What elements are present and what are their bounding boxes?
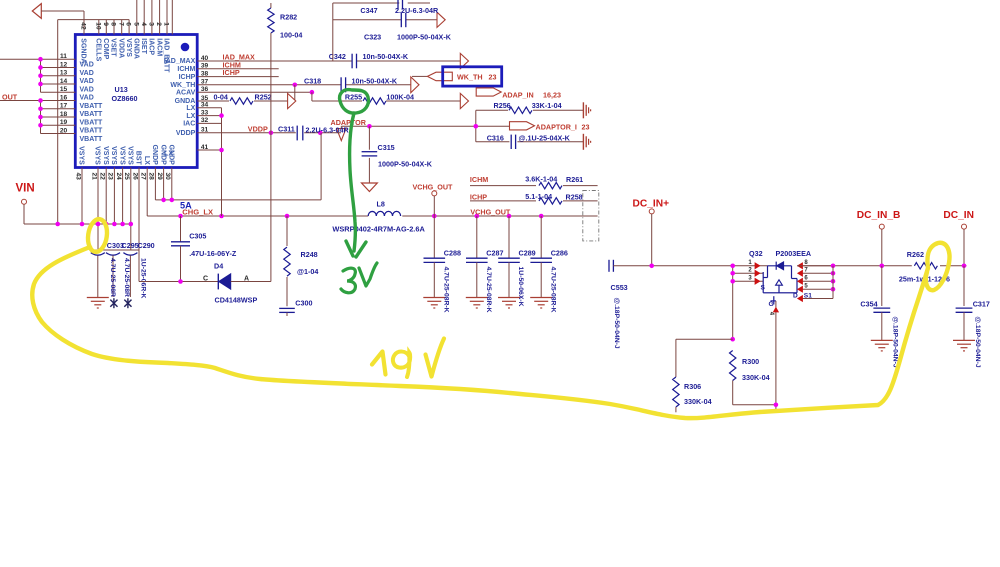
svg-text:WK_TH: WK_TH [457, 72, 483, 81]
svg-text:ISET: ISET [140, 38, 147, 54]
svg-text:VSYS: VSYS [94, 146, 101, 165]
svg-text:@.18P-50-04N-J: @.18P-50-04N-J [974, 316, 981, 367]
svg-text:C347: C347 [360, 6, 377, 15]
svg-text:LX: LX [186, 113, 195, 120]
svg-text:C316: C316 [487, 133, 504, 142]
svg-text:CD4148WSP: CD4148WSP [215, 295, 258, 304]
svg-text:LX: LX [186, 105, 195, 112]
svg-text:Q32: Q32 [749, 249, 763, 258]
svg-text:C: C [203, 275, 208, 282]
svg-text:29: 29 [156, 173, 163, 181]
svg-text:4.7U-25-08R: 4.7U-25-08R [123, 258, 130, 297]
svg-text:R248: R248 [301, 250, 318, 259]
svg-text:1000P-50-04X-K: 1000P-50-04X-K [378, 160, 433, 169]
svg-text:VAD: VAD [80, 86, 94, 93]
svg-text:27: 27 [140, 173, 147, 181]
svg-text:4.7U-25-08R: 4.7U-25-08R [109, 258, 116, 297]
svg-text:14: 14 [60, 78, 68, 85]
svg-text:C305: C305 [189, 232, 206, 241]
svg-text:100-04: 100-04 [280, 30, 302, 39]
svg-text:U13: U13 [115, 85, 128, 94]
svg-text:22: 22 [99, 173, 106, 181]
svg-text:7: 7 [117, 22, 124, 26]
svg-text:23: 23 [582, 122, 590, 131]
svg-text:1000P-50-04X-K: 1000P-50-04X-K [397, 32, 452, 41]
svg-text:A: A [244, 275, 249, 282]
svg-text:30: 30 [164, 173, 171, 181]
svg-text:21: 21 [90, 173, 97, 181]
svg-text:2.2U-6.3-04R: 2.2U-6.3-04R [306, 126, 350, 135]
svg-text:WSRP0402-4R7M-AG-2.6A: WSRP0402-4R7M-AG-2.6A [332, 224, 425, 233]
svg-text:16: 16 [60, 94, 68, 101]
svg-text:COMP: COMP [102, 38, 109, 59]
svg-text:19: 19 [60, 119, 68, 126]
svg-text:2.2U-6.3-04R: 2.2U-6.3-04R [395, 6, 439, 15]
svg-text:@.1U-25-04X-K: @.1U-25-04X-K [519, 133, 571, 142]
svg-text:43: 43 [74, 173, 81, 181]
svg-text:VSYS: VSYS [78, 146, 85, 165]
svg-text:VBATT: VBATT [80, 128, 104, 135]
svg-text:100K-04: 100K-04 [386, 92, 414, 101]
svg-text:R252: R252 [255, 93, 272, 102]
svg-text:1U-50-06X-K: 1U-50-06X-K [517, 267, 524, 307]
svg-text:VBATT: VBATT [80, 111, 104, 118]
svg-text:23: 23 [107, 173, 114, 181]
svg-text:R256: R256 [494, 101, 511, 110]
svg-text:C317: C317 [973, 299, 990, 308]
svg-text:OZ8660: OZ8660 [112, 94, 138, 103]
svg-text:6: 6 [125, 22, 132, 26]
svg-text:VSYS: VSYS [127, 146, 134, 165]
svg-text:.47U-16-06Y-Z: .47U-16-06Y-Z [189, 249, 237, 258]
svg-text:R255: R255 [345, 93, 362, 102]
svg-text:VAD: VAD [80, 62, 94, 69]
svg-text:3: 3 [148, 22, 155, 26]
svg-text:VDDA: VDDA [117, 38, 124, 58]
svg-text:330K-04: 330K-04 [684, 397, 712, 406]
svg-text:R300: R300 [742, 357, 759, 366]
svg-text:CHG_LX: CHG_LX [182, 208, 213, 217]
svg-text:10: 10 [94, 22, 101, 30]
svg-text:DC_IN_B: DC_IN_B [857, 210, 901, 221]
svg-text:1: 1 [163, 22, 170, 26]
svg-text:@.18P-50-04N-J: @.18P-50-04N-J [892, 316, 899, 367]
svg-text:ICHM: ICHM [177, 66, 195, 73]
svg-text:BST: BST [135, 151, 142, 166]
svg-text:VBATT: VBATT [80, 136, 104, 143]
svg-text:C342: C342 [329, 52, 346, 61]
svg-text:R261: R261 [566, 175, 583, 184]
svg-text:LX: LX [143, 156, 150, 165]
svg-text:8: 8 [110, 22, 117, 26]
svg-text:C553: C553 [611, 283, 628, 292]
svg-text:D4: D4 [214, 261, 223, 270]
svg-text:2: 2 [155, 22, 162, 26]
svg-text:DC_IN+: DC_IN+ [633, 198, 670, 209]
svg-text:4: 4 [140, 22, 147, 26]
svg-text:GNDP: GNDP [168, 145, 175, 166]
svg-text:VAD: VAD [80, 95, 94, 102]
svg-text:@.18P-50-04N-J: @.18P-50-04N-J [613, 298, 620, 349]
svg-text:ICHM: ICHM [470, 175, 488, 184]
svg-text:VSYS: VSYS [118, 146, 125, 165]
svg-text:VDDP: VDDP [248, 124, 268, 133]
svg-text:IACP: IACP [148, 38, 155, 55]
svg-text:C288: C288 [444, 248, 461, 257]
svg-text:4.7U-25-08R-K: 4.7U-25-08R-K [443, 267, 450, 313]
svg-text:S1: S1 [804, 293, 812, 300]
svg-text:SGNDA: SGNDA [80, 38, 87, 63]
svg-text:42: 42 [80, 22, 87, 30]
svg-text:ADAPTOR_I: ADAPTOR_I [536, 122, 577, 131]
svg-text:P2003EEA: P2003EEA [776, 249, 812, 258]
svg-text:GNDP: GNDP [151, 145, 158, 166]
svg-text:IAC: IAC [183, 121, 195, 128]
svg-text:C318: C318 [304, 76, 321, 85]
svg-text:@1-04: @1-04 [297, 267, 318, 276]
svg-text:G: G [769, 301, 774, 308]
svg-text:C311: C311 [278, 124, 295, 133]
svg-text:5.1-1-04: 5.1-1-04 [525, 192, 552, 201]
svg-text:15: 15 [60, 86, 68, 93]
svg-text:9: 9 [102, 22, 109, 26]
svg-text:VBATT: VBATT [80, 119, 104, 126]
svg-text:0-04: 0-04 [214, 93, 228, 102]
svg-text:11: 11 [60, 53, 67, 60]
svg-text:OUT: OUT [2, 92, 18, 101]
svg-text:26: 26 [131, 173, 138, 181]
svg-text:VSYS: VSYS [125, 38, 132, 57]
svg-text:ACAV: ACAV [176, 89, 196, 96]
svg-text:24: 24 [115, 173, 122, 181]
svg-text:33K-1-04: 33K-1-04 [532, 101, 562, 110]
svg-text:C287: C287 [486, 248, 503, 257]
svg-text:ADAP_IN: ADAP_IN [502, 90, 534, 99]
svg-text:17: 17 [60, 103, 68, 110]
svg-text:ICHP: ICHP [223, 68, 240, 77]
svg-text:GNDA: GNDA [133, 38, 140, 59]
svg-text:VAD: VAD [80, 78, 94, 85]
svg-text:4.7U-25-08R-K: 4.7U-25-08R-K [549, 267, 556, 313]
svg-text:R306: R306 [684, 382, 701, 391]
svg-text:18: 18 [60, 111, 68, 118]
svg-text:C289: C289 [519, 248, 536, 257]
svg-text:VIN: VIN [16, 183, 35, 195]
svg-text:20: 20 [60, 127, 68, 134]
svg-text:3.6K-1-04: 3.6K-1-04 [525, 175, 557, 184]
svg-text:C300: C300 [295, 298, 312, 307]
svg-text:28: 28 [148, 173, 155, 181]
svg-text:VSYS: VSYS [102, 146, 109, 165]
svg-text:1U-25-06R-K: 1U-25-06R-K [140, 258, 147, 299]
svg-text:C323: C323 [364, 32, 381, 41]
svg-text:VSET: VSET [110, 38, 117, 57]
svg-text:S: S [761, 285, 766, 292]
svg-text:IACM: IACM [155, 38, 162, 56]
svg-text:L8: L8 [377, 200, 385, 209]
svg-text:VSYS: VSYS [110, 146, 117, 165]
svg-text:13: 13 [60, 70, 68, 77]
svg-text:WK_TH: WK_TH [170, 82, 195, 89]
svg-text:4.7U-25-08R-K: 4.7U-25-08R-K [485, 267, 492, 313]
svg-text:VDDP: VDDP [176, 130, 196, 137]
svg-text:R258: R258 [566, 193, 583, 202]
svg-text:10n-50-04X-K: 10n-50-04X-K [363, 52, 409, 61]
svg-text:GNDP: GNDP [159, 145, 166, 166]
svg-text:23: 23 [489, 72, 497, 81]
svg-text:ICHP: ICHP [470, 193, 487, 202]
svg-text:16,23: 16,23 [543, 90, 561, 99]
svg-text:R282: R282 [280, 13, 297, 22]
svg-text:C286: C286 [551, 248, 568, 257]
svg-text:10n-50-04X-K: 10n-50-04X-K [352, 76, 398, 85]
svg-text:C290: C290 [138, 241, 155, 250]
svg-text:VAD: VAD [80, 70, 94, 77]
svg-text:CELLS: CELLS [95, 38, 102, 61]
svg-text:IAD_BATT: IAD_BATT [163, 38, 170, 73]
svg-text:C295: C295 [122, 241, 139, 250]
svg-text:12: 12 [60, 61, 68, 68]
svg-text:R262: R262 [907, 250, 924, 259]
svg-text:C315: C315 [378, 143, 395, 152]
svg-text:VBATT: VBATT [80, 103, 104, 110]
svg-text:ICHP: ICHP [179, 74, 196, 81]
svg-text:C354: C354 [860, 299, 877, 308]
svg-text:VCHG_OUT: VCHG_OUT [413, 182, 454, 191]
svg-text:330K-04: 330K-04 [742, 373, 770, 382]
svg-text:25: 25 [123, 173, 130, 181]
svg-text:DC_IN: DC_IN [943, 210, 974, 221]
svg-text:5: 5 [132, 22, 139, 26]
svg-text:VCHG_OUT: VCHG_OUT [470, 208, 511, 217]
svg-text:IAD_MAX: IAD_MAX [164, 58, 196, 65]
